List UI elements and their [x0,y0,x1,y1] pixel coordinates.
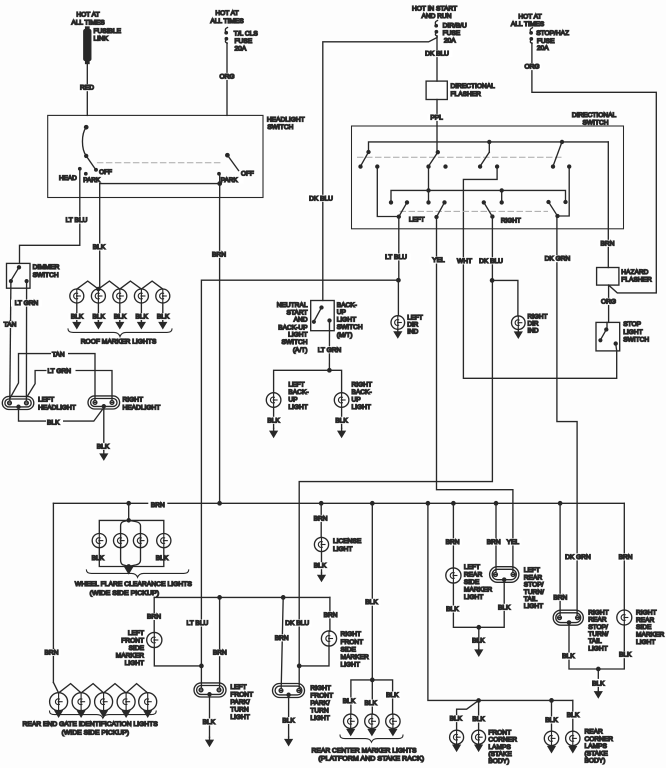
roof marker lights zigzag harness [77,281,163,289]
dashed linkage lower [400,210,548,212]
svg-text:BLK: BLK [472,716,485,723]
svg-text:SIDE: SIDE [341,646,357,653]
label BRN (lf marker) [145,613,164,620]
svg-text:LAMPS: LAMPS [488,744,511,751]
svg-text:BLK: BLK [365,599,378,606]
svg-text:LIGHT: LIGHT [310,715,329,722]
svg-text:FLASHER: FLASHER [621,277,652,284]
svg-text:RIGHT: RIGHT [501,218,521,225]
svg-text:LIGHT: LIGHT [337,317,356,324]
rear corner lamp 2 [566,731,580,745]
svg-text:BLK: BLK [282,718,295,725]
svg-text:BRN: BRN [324,612,338,619]
svg-text:DK GRN: DK GRN [545,256,571,263]
svg-text:BLK: BLK [498,604,511,611]
front sub-bus [154,596,330,598]
label YEL [429,257,448,264]
contact 445 [444,165,447,168]
svg-text:RIGHT: RIGHT [341,631,362,638]
label BLK [90,313,107,320]
front corner lamp 1 jog [457,701,479,731]
label BLK [617,651,634,658]
label DK BLU (front) [283,620,312,627]
ground [125,567,132,574]
svg-text:TAIL: TAIL [588,638,602,645]
label BLK [265,417,282,424]
svg-text:REAR: REAR [636,617,655,624]
svg-text:AND: AND [294,317,308,324]
BRN bus right end down to right rear side marker [623,503,625,610]
svg-text:DK BLU: DK BLU [309,195,333,202]
wire DK GRN column [557,216,577,616]
rear center marker lamp 3 [386,714,400,728]
svg-text:LIGHT: LIGHT [288,331,307,338]
left front park/turn light [194,683,226,697]
svg-text:FUSE: FUSE [443,30,461,37]
svg-text:BLK: BLK [545,717,558,724]
wire YEL column [437,217,513,572]
BRN drop to right rear stop/turn/tail [559,503,561,616]
wire LT GRN crossover [27,371,112,401]
rear center marker lamp 1 [344,714,358,728]
svg-text:LEFT: LEFT [464,564,480,571]
svg-text:BLK: BLK [446,606,459,613]
label BRN [210,251,228,258]
svg-text:HAZARD: HAZARD [621,269,648,276]
contact 497 to WHT column [496,165,499,168]
svg-text:DIR: DIR [528,321,539,328]
left headlight [2,396,34,409]
label BLK [155,313,172,320]
label BLK [444,606,461,613]
switch blade 1 [367,151,370,154]
svg-text:LAMPS: LAMPS [585,743,608,750]
wire LT BLU column [398,217,400,281]
svg-text:BRN: BRN [45,650,59,657]
svg-text:LEFT: LEFT [128,630,144,637]
label PPL [428,114,446,121]
label DK BLU [422,50,453,57]
svg-text:HEADLIGHT: HEADLIGHT [38,404,76,411]
ground [369,729,376,736]
hazard flasher box [597,268,619,286]
roof marker lamp 1 [70,289,84,303]
rear corner lamp 1 [544,731,558,745]
svg-text:HEADLIGHT: HEADLIGHT [267,117,305,124]
front corner lamp 2 [472,730,486,744]
ground [100,451,107,460]
svg-text:BLK: BLK [386,692,399,699]
wire DK BLU: fuse down to directional flasher [436,36,438,81]
roof marker lamp 5 [156,289,170,303]
svg-text:FLASHER: FLASHER [451,91,482,98]
brace rear center [340,735,403,742]
svg-text:SIDE: SIDE [129,645,145,652]
ground [318,573,325,581]
wire TAN: dimmer to left headlight pin1 [10,281,11,400]
svg-text:UP: UP [288,397,298,404]
svg-text:BACK-: BACK- [352,389,372,396]
svg-text:LT GRN: LT GRN [318,347,342,354]
switch blade 3 [488,142,490,152]
svg-text:MARKER: MARKER [116,653,144,660]
svg-text:RIGHT: RIGHT [310,685,331,692]
svg-text:BLK: BLK [97,443,110,450]
wire ORG: stop/haz fuse right side down to hazard flasher [532,43,656,293]
brace wheel flare [86,570,188,577]
svg-text:FRONT: FRONT [488,729,511,736]
svg-text:BRN: BRN [446,539,460,546]
svg-text:BLK: BLK [343,698,356,705]
label BLK [384,692,401,699]
svg-text:BLK: BLK [203,719,216,726]
svg-text:BLK: BLK [156,555,169,562]
svg-text:DIR/B/U: DIR/B/U [443,23,467,30]
lamp LEFT REAR SIDE MARKER [446,568,461,583]
svg-text:TAN: TAN [52,352,65,359]
svg-text:MARKER: MARKER [341,654,369,661]
contact 569 to DK GRN pivot [568,165,571,168]
svg-text:OFF: OFF [99,169,112,176]
svg-text:SWITCH: SWITCH [267,124,293,131]
label BRN (lr tail) [484,538,503,545]
svg-text:REAR: REAR [588,617,607,624]
label BLK [133,313,150,320]
svg-text:(WIDE SIDE PICKUP): (WIDE SIDE PICKUP) [90,590,159,597]
svg-text:TAN: TAN [4,322,17,329]
svg-text:LICENSE: LICENSE [333,538,362,545]
right dir ind feed [492,280,518,316]
svg-text:AND RUN: AND RUN [421,13,451,20]
lamp RIGHT REAR SIDE MARKER [617,610,632,625]
lamp RIGHT DIR IND [512,316,526,330]
label LT GRN (backup) [315,346,345,353]
ground [347,729,354,736]
wire BRN: headlight switch park feed down to tail bus [219,198,221,504]
svg-text:LEFT: LEFT [524,567,540,574]
label BLK [470,716,487,723]
right headlight [88,396,120,409]
svg-text:ORG: ORG [601,298,616,305]
svg-text:(STAKE: (STAKE [585,750,609,757]
wire DK BLU branch: fuse left and down to back-up light switch [323,38,437,301]
label BRN (bus) [148,501,167,509]
fuse T/L CLS 20A [225,28,228,44]
svg-text:MARKER: MARKER [464,586,492,593]
lamp LICENSE LIGHT [314,537,328,551]
svg-text:LT GRN: LT GRN [48,368,72,375]
label DK BLU (column) [477,257,506,264]
lamp RIGHT BACK-UP LIGHT [334,393,349,408]
svg-text:BLK: BLK [450,716,463,723]
right rear stop/turn/tail light [553,610,583,625]
lamp LEFT BACK-UP LIGHT [266,393,281,408]
svg-text:SWITCH: SWITCH [281,339,307,346]
svg-text:PPL: PPL [430,114,443,121]
svg-text:DK BLU: DK BLU [479,258,503,265]
svg-text:20A: 20A [235,45,247,52]
ground [55,710,62,716]
back-up light switch box [311,301,335,331]
BRN bus left end down to rear end gate lights [52,503,54,682]
svg-text:20A: 20A [444,38,456,45]
label BLK (column) [363,599,381,606]
svg-text:SWITCH: SWITCH [337,324,363,331]
wire ORG: fuse to headlight switch [226,43,228,115]
ground [453,744,460,751]
svg-text:LT BLU: LT BLU [66,217,88,224]
svg-text:LIGHT: LIGHT [125,660,144,667]
label LT GRN [11,300,42,307]
svg-text:REAR: REAR [585,729,604,736]
svg-text:LEFT: LEFT [409,217,425,224]
end gate lamp 3 [95,693,113,711]
ground [475,649,482,656]
svg-text:LINK: LINK [94,36,109,43]
right front park/turn light [273,684,305,698]
svg-text:BLK: BLK [619,652,632,659]
svg-text:ROOF MARKER LIGHTS: ROOF MARKER LIGHTS [81,338,157,345]
svg-text:BRN: BRN [212,251,226,258]
svg-text:BLK: BLK [93,244,106,251]
svg-text:DK GRN: DK GRN [565,554,591,561]
svg-text:LIGHT: LIGHT [230,714,249,721]
end gate lamp 5 [139,693,157,711]
ground [569,746,576,753]
svg-text:TURN/: TURN/ [524,589,544,596]
svg-text:PARK/: PARK/ [310,700,329,707]
svg-text:LEFT: LEFT [230,684,246,691]
svg-text:HOT AT: HOT AT [76,12,99,19]
roof marker lamp 3 [113,289,127,303]
svg-text:PARK: PARK [221,177,239,184]
svg-text:RIGHT: RIGHT [528,314,548,321]
svg-text:BLK: BLK [157,314,170,321]
label LT BLU [61,217,92,224]
label BRN (lr marker) [443,538,462,545]
label DK GRN [542,255,574,262]
ground [78,710,85,716]
BRN drop to right front park/turn [281,597,283,688]
BLK grounds right rear [569,622,624,669]
svg-text:SIDE: SIDE [464,579,480,586]
label BRN (rr tail) [551,594,570,601]
svg-text:BLK: BLK [267,417,280,424]
wire LT GRN: dimmer to left headlight pin2 [25,281,27,400]
svg-text:LIGHT: LIGHT [464,594,483,601]
wire ORG: flasher to stop light switch [608,285,610,322]
wire DK BLU column [299,217,492,689]
rear end gate identification lights [53,682,147,693]
svg-text:BRN: BRN [487,539,501,546]
svg-text:BLK: BLK [92,555,105,562]
svg-text:BRN: BRN [601,240,615,247]
wheel flare clearance lights [128,503,130,520]
wire BLK: headlight grounds [19,408,104,451]
ground [123,710,130,716]
svg-text:MARKER: MARKER [636,632,664,639]
label TAN [1,321,19,328]
label LT BLU (column) [381,253,411,260]
label ORG [218,73,237,80]
svg-text:TURN/: TURN/ [588,631,608,638]
LT BLU to left front: horizontal [201,280,398,688]
svg-text:WHT: WHT [457,258,472,265]
svg-text:HOT IN START: HOT IN START [412,6,457,13]
svg-text:CORNER: CORNER [488,737,517,744]
end gate lamp 1 [50,693,68,711]
right front side marker [329,597,331,631]
svg-text:DIRECTIONAL: DIRECTIONAL [451,83,496,90]
svg-text:SWITCH: SWITCH [582,120,608,127]
stop light switch box [596,322,620,351]
svg-text:RIGHT: RIGHT [636,609,657,616]
svg-text:REAR: REAR [464,572,483,579]
svg-text:(M/T): (M/T) [337,332,353,339]
headlight switch box [48,115,263,197]
svg-text:ORG: ORG [219,73,234,80]
ground [206,737,213,746]
ground [270,428,277,437]
svg-text:RIGHT: RIGHT [352,382,373,389]
ground [475,744,482,751]
svg-text:FUSE: FUSE [537,38,555,45]
dashed linkage upper [358,156,563,158]
label BLK [112,313,129,320]
svg-text:T/L CLS: T/L CLS [234,31,259,38]
svg-text:STOP/: STOP/ [588,624,608,631]
switch blade 2 (PPL) [436,151,439,154]
svg-text:PARK/: PARK/ [230,699,249,706]
fuse STOP/HAZ 20A [530,28,533,44]
svg-text:YEL: YEL [432,257,445,264]
label BLK [280,717,297,724]
svg-text:(PLATFORM AND STAKE RACK): (PLATFORM AND STAKE RACK) [318,755,424,762]
svg-text:IND: IND [407,328,418,335]
wire TAN crossover [10,354,95,401]
label BLK [200,718,217,725]
svg-text:ALL TIMES: ALL TIMES [71,19,105,26]
label BLK [91,244,108,251]
svg-text:TURN: TURN [230,707,249,714]
svg-text:BRN: BRN [619,554,633,561]
svg-text:LIGHT: LIGHT [341,662,360,669]
label BLK [590,679,607,687]
svg-text:LIGHT: LIGHT [524,603,543,610]
label BRN (dir switch) [599,240,617,247]
svg-text:LIGHT: LIGHT [636,639,655,646]
BRN drop to left rear stop/turn/tail [495,503,497,571]
svg-text:BLK: BLK [364,700,377,707]
label BRN (right) [617,553,635,560]
svg-text:LEFT: LEFT [288,382,304,389]
svg-text:UP: UP [337,309,347,316]
svg-text:BLK: BLK [92,314,105,321]
roof marker lamp 2 [91,289,105,303]
label BRN (end gate) [43,649,61,656]
svg-text:DK BLU: DK BLU [285,620,309,627]
ground [95,321,102,328]
YEL blade+pivot [435,216,438,219]
wheel flare lamp 2 [114,534,128,548]
svg-text:HEAD: HEAD [59,175,77,182]
roof marker lamp 4 [134,289,148,303]
svg-text:(STAKE: (STAKE [488,751,512,758]
top feed rail [369,142,609,152]
label BLK [341,698,358,705]
label BLK [95,443,112,450]
svg-text:STOP/: STOP/ [524,582,544,589]
stop switch mechanism [606,322,608,329]
ground [548,746,555,753]
svg-text:REAR CENTER MARKER LIGHTS: REAR CENTER MARKER LIGHTS [312,748,417,755]
brace end gate [50,711,157,718]
wire BLK: headlight switch to roof marker lights [99,198,101,290]
svg-text:CORNER: CORNER [585,736,614,743]
svg-text:LEFT: LEFT [38,397,54,404]
svg-text:NEUTRAL: NEUTRAL [277,302,308,309]
left rear stop/turn/tail light [490,567,519,583]
svg-text:DIMMER: DIMMER [33,264,60,271]
label BLK [447,715,464,722]
svg-text:(WIDE SIDE PICKUP): (WIDE SIDE PICKUP) [62,729,130,736]
label BLK [560,653,577,660]
svg-text:REAR END GATE IDENTIFICATION L: REAR END GATE IDENTIFICATION LIGHTS [23,721,159,728]
label BRN (lf park) [210,649,229,656]
svg-text:HEADLIGHT: HEADLIGHT [123,404,161,411]
corner lamps feed from bus [428,503,573,700]
directional switch box [352,126,624,229]
svg-text:LT BLU: LT BLU [187,620,209,627]
wire WHT column [463,229,616,378]
left dir ind feed [397,280,399,316]
headlight switch right mechanism [226,154,229,157]
label RED [78,84,96,91]
svg-text:ALL TIMES: ALL TIMES [511,21,545,28]
label LT BLU (front) [182,620,212,627]
svg-text:LIGHT: LIGHT [333,546,352,553]
label BLK [69,313,86,320]
label BRN (rf marker) [321,611,340,618]
svg-text:BRN: BRN [147,614,161,621]
svg-text:TAIL: TAIL [524,596,538,603]
label BLK [543,717,560,724]
svg-text:HOT AT: HOT AT [215,10,238,17]
BLK column: bus to rear center marker lights [371,503,373,680]
park contact wiring [219,175,221,184]
HEAD contact + LT BLU wire down [79,168,81,170]
svg-text:20A: 20A [537,45,549,52]
svg-text:WHEEL FLARE CLEARANCE LIGHTS: WHEEL FLARE CLEARANCE LIGHTS [75,581,192,588]
label BLK [470,637,487,644]
label PARK (right) [220,176,244,183]
label BRN (rf park) [272,634,291,641]
wheel flare lamp 3 [133,534,147,548]
svg-text:LIGHT: LIGHT [288,404,307,411]
ground [390,729,397,736]
wire RED: fusible link to headlight switch [86,64,88,116]
svg-text:LIGHT: LIGHT [623,329,642,336]
fuse DIR/B/U 20A [435,21,438,37]
svg-text:(A/T): (A/T) [293,347,308,354]
label ORG (stop/haz) [523,63,542,70]
ground [73,321,80,328]
mechanical link dashed [97,162,222,164]
svg-text:BLK: BLK [592,680,605,687]
label LT GRN (crossover) [47,367,76,374]
svg-text:BRN: BRN [213,650,227,657]
svg-text:UP: UP [352,397,362,404]
